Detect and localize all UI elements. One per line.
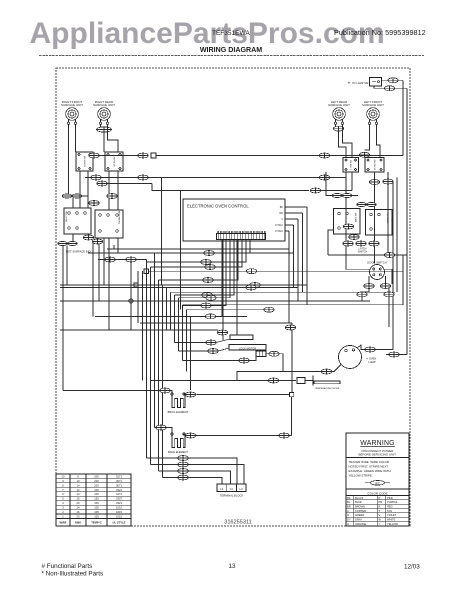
svg-text:O: O: [347, 522, 349, 526]
svg-text:12: 12: [77, 488, 80, 492]
connector: [384, 253, 394, 258]
svg-text:20: 20: [77, 501, 80, 505]
wire: EOC strip drop 5: [175, 240, 235, 295]
wire: mesh h11: [183, 304, 404, 306]
wire: [87, 171, 89, 208]
wire: mesh h13: [95, 315, 247, 317]
svg-text:BAKE SW: BAKE SW: [355, 213, 358, 222]
svg-text:VIOLET: VIOLET: [387, 513, 397, 517]
wire: bundle v11: [182, 305, 184, 361]
svg-text:3071: 3071: [116, 479, 122, 483]
lock switch contacts: [256, 351, 266, 357]
wire: [345, 255, 347, 269]
warning box text: [349, 440, 397, 495]
svg-text:ELECTRONIC OVEN CONTROL: ELECTRONIC OVEN CONTROL: [187, 204, 249, 209]
connector: strip drop 5: [202, 293, 212, 298]
svg-text:14: 14: [77, 483, 80, 487]
svg-text:LAMP: LAMP: [369, 360, 376, 364]
bake element: [168, 433, 188, 454]
wire: right trunk 1: [402, 80, 404, 155]
oven lamp switch: [370, 78, 382, 87]
wire: [99, 155, 138, 157]
svg-text:AWG: AWG: [75, 521, 81, 525]
wire: switch output drop A: [161, 178, 163, 286]
svg-text:105: 105: [94, 510, 99, 514]
wire: cross feed 2: [152, 184, 309, 191]
svg-text:200: 200: [94, 483, 99, 487]
wire: terminal feed 4: [188, 478, 222, 485]
wire: [279, 354, 283, 372]
connector: latch row 2: [356, 241, 366, 246]
connector: strip drop 6: [206, 295, 216, 300]
svg-text:L2: L2: [240, 487, 244, 491]
connector: [369, 180, 379, 185]
wire: bake box left: [328, 230, 334, 234]
wire: lamp bottom lead: [332, 365, 341, 372]
svg-text:G/Y: G/Y: [375, 481, 380, 485]
connector: lamp switch line 2: [384, 86, 394, 91]
oven lamp LP1: [339, 346, 362, 369]
svg-text:SURFACE UNIT: SURFACE UNIT: [61, 103, 83, 107]
connector pair: right front coil: [62, 194, 82, 198]
connector pair: between bake-broil boxes: [357, 202, 377, 206]
lock motor M1: [229, 345, 266, 351]
wire: [101, 177, 138, 179]
connector: [389, 352, 399, 357]
wire: EOC RD drop: [302, 213, 304, 292]
svg-text:3321: 3321: [116, 501, 122, 505]
wire: mesh h1: [107, 248, 289, 250]
wire: [289, 435, 291, 437]
svg-text:105: 105: [94, 514, 99, 518]
wire: thermostat drop 2: [108, 238, 110, 330]
probe plug: [297, 378, 305, 384]
wire: mesh h14: [140, 322, 292, 324]
svg-text:3271: 3271: [116, 474, 122, 478]
wire: terminal feed 1: [188, 458, 237, 484]
connector: below bake box: [349, 235, 359, 240]
wire: EOC BK drop: [306, 207, 308, 305]
wire: left rear coil lead A: [335, 125, 337, 127]
wire: [163, 477, 178, 479]
svg-text:BEFORE SERVICING UNIT.: BEFORE SERVICING UNIT.: [359, 452, 397, 456]
wire: EOC strip drop 4: [159, 240, 239, 280]
svg-text:PR: PR: [379, 500, 383, 504]
connector: [185, 392, 195, 397]
connector: [357, 292, 367, 297]
wire: [291, 323, 293, 325]
connector: [264, 307, 274, 312]
wire: [183, 360, 239, 362]
connector: [365, 347, 375, 352]
connector: [310, 188, 320, 193]
wire: [249, 357, 256, 361]
wire: [361, 297, 363, 301]
wire: lamp switch lower: [374, 86, 384, 88]
svg-text:NOTED FIRST, STRIPE NEXT.: NOTED FIRST, STRIPE NEXT.: [349, 465, 389, 469]
wire: right front coil lead B: [75, 125, 77, 152]
wire: [175, 342, 206, 344]
wire: strip long drop A: [222, 240, 224, 340]
wire: [374, 172, 376, 180]
wire: bundle v7: [166, 288, 168, 331]
wire: door switch feed: [328, 254, 407, 256]
svg-text:BAKE ELEMENT: BAKE ELEMENT: [168, 450, 188, 454]
wire: bundle v2: [146, 260, 148, 459]
connector: [92, 239, 102, 244]
wire: [151, 464, 178, 466]
connector: latch row 1: [343, 241, 353, 246]
svg-text:105: 105: [94, 506, 99, 510]
wire: [117, 238, 119, 253]
wire: thermostat drop 1: [103, 238, 105, 285]
svg-text:10: 10: [62, 474, 65, 478]
wire: [113, 245, 115, 249]
wire: [184, 393, 185, 396]
svg-text:12/03: 12/03: [404, 564, 420, 571]
svg-text:105: 105: [94, 501, 99, 505]
connector: [319, 175, 329, 180]
wire: to right rear switch: [103, 132, 105, 152]
svg-text:GY: GY: [347, 518, 351, 522]
wire: bundle v5: [158, 280, 160, 471]
svg-text:10: 10: [77, 479, 80, 483]
wire: [291, 397, 293, 436]
connector: [156, 425, 166, 430]
wire: strip long drop B: [236, 240, 238, 335]
coil: right rear surface unit: [93, 100, 115, 125]
wire: switch output drop B: [180, 191, 182, 310]
wire: bundle v6: [162, 285, 164, 478]
switch: right front surface switch: [76, 152, 93, 171]
connector: [250, 283, 260, 288]
wire: [288, 249, 290, 323]
wire: EOC strip drop 2: [147, 240, 247, 262]
connector: above thermostat: [89, 201, 99, 206]
wire: mesh h2: [88, 252, 294, 254]
wire: bundle v10: [178, 298, 180, 351]
connector: [279, 433, 289, 438]
wire: [72, 198, 74, 208]
svg-text:Y: Y: [379, 522, 381, 526]
svg-text:TEF351EWA: TEF351EWA: [212, 30, 250, 37]
connector: [105, 257, 115, 262]
wire: [82, 196, 88, 202]
wire: EOC V drop: [297, 219, 299, 301]
wire: bundle v13: [190, 316, 192, 390]
wire: selector drop 1: [92, 242, 94, 317]
wire: probe line: [150, 380, 296, 382]
wire: [159, 470, 178, 472]
svg-text:SWITCH: SWITCH: [358, 250, 368, 253]
wire: [98, 259, 104, 261]
connector: [160, 388, 170, 393]
connector: [97, 181, 107, 186]
svg-text:200: 200: [94, 474, 99, 478]
wire: EOC pin 4: [285, 224, 294, 226]
svg-text:HOT SURFACE IND.: HOT SURFACE IND.: [66, 250, 91, 254]
svg-text:TEMPERATURE PROBE: TEMPERATURE PROBE: [315, 387, 340, 390]
svg-text:20: 20: [77, 514, 80, 518]
svg-text:C: C: [347, 509, 349, 513]
wire: mesh h5 long: [149, 270, 404, 272]
wire: [216, 339, 230, 343]
wire: [385, 276, 387, 284]
svg-text:L1: L1: [220, 487, 224, 491]
wire: door switch left: [346, 268, 370, 270]
svg-text:R: R: [379, 505, 381, 509]
wire: [321, 190, 352, 192]
wire: right trunk 3: [396, 184, 398, 292]
wire: broil return: [196, 394, 289, 396]
svg-text:4471: 4471: [116, 492, 122, 496]
connector: on L1 feed: [319, 153, 329, 158]
svg-text:P: P: [379, 496, 381, 500]
svg-text:TEMP°C: TEMP°C: [91, 521, 102, 525]
wire: EOC strip drop 6: [179, 240, 231, 298]
wire: [396, 178, 398, 184]
oven selector switch: [64, 208, 91, 234]
wire: [351, 172, 353, 191]
oven thermostat switch: [95, 210, 123, 238]
svg-text:1015: 1015: [116, 514, 122, 518]
connector: [285, 325, 295, 330]
wire: right trunk 2 lower: [406, 255, 408, 355]
wire: [108, 171, 110, 210]
svg-text:✳ OVEN: ✳ OVEN: [366, 357, 376, 361]
wire: EOC strip drop 3: [151, 240, 243, 267]
connector: [380, 284, 390, 289]
svg-text:THERMOSTAT: THERMOSTAT: [118, 210, 121, 224]
svg-text:SURFACE UNIT: SURFACE UNIT: [93, 103, 115, 107]
connector: above thermostat B: [107, 194, 117, 199]
wire: [196, 435, 279, 437]
svg-text:BK: BK: [280, 206, 284, 209]
color code table: [346, 496, 409, 527]
svg-text:EXAMPLE: GREEN WIRE WITH: EXAMPLE: GREEN WIRE WITH: [349, 469, 391, 473]
wire: mesh h8: [171, 291, 396, 293]
wire: to door switch: [374, 184, 376, 263]
wire: switch to selector: [79, 171, 81, 208]
svg-text:Publication No: 5995399812: Publication No: 5995399812: [334, 28, 426, 37]
connector: [239, 358, 249, 363]
svg-text:BROWN: BROWN: [355, 505, 365, 509]
connector: lamp switch line 1: [388, 78, 398, 83]
svg-text:BROIL SW: BROIL SW: [388, 213, 390, 223]
wire: [237, 372, 321, 381]
svg-text:DOOR SWITCH: DOOR SWITCH: [367, 261, 386, 265]
tracer wire example symbol: [365, 481, 390, 486]
wire: right rear coil lead A: [100, 125, 102, 128]
connector: [383, 179, 393, 184]
connector: [246, 269, 256, 274]
wire: right front coil lead A: [68, 125, 70, 194]
svg-text:3071: 3071: [116, 483, 122, 487]
wire: left front coil lead A: [365, 125, 370, 150]
header rule: [39, 55, 424, 57]
wire: bundle v8: [170, 292, 172, 330]
svg-text:105: 105: [94, 492, 99, 496]
connector: strip drop 1: [204, 251, 214, 256]
connector: strip drop 2: [201, 260, 211, 265]
wire: to node: [291, 330, 293, 393]
svg-text:WARNING: WARNING: [360, 440, 394, 447]
wire: EOC pin 5: [285, 230, 289, 232]
svg-text:RED: RED: [387, 505, 393, 509]
svg-text:BLACK: BLACK: [355, 496, 364, 500]
wire: lamp top lead: [357, 345, 365, 350]
wire: lamp switch to connector: [382, 79, 389, 81]
junction node: [151, 153, 156, 158]
connector pair: below left rear switch: [332, 193, 352, 197]
wire: mesh h15: [60, 329, 218, 331]
wire: mesh h7: [60, 284, 307, 286]
coil: right front surface unit: [61, 100, 83, 125]
wire: EOC strip drop 8: [191, 240, 223, 316]
wire: [326, 172, 332, 196]
connector: [217, 330, 227, 335]
wire: mesh h12: [187, 309, 273, 311]
svg-text:13: 13: [228, 563, 236, 570]
wire: [368, 276, 370, 284]
svg-text:LOCK MOTOR: LOCK MOTOR: [239, 346, 257, 350]
wire: to door switch feed: [387, 184, 389, 255]
warning box: [346, 433, 409, 526]
svg-text:316255311: 316255311: [224, 520, 252, 526]
broil element: [168, 393, 189, 414]
wire: lamp right: [386, 354, 407, 356]
bake switch box: [334, 209, 361, 235]
svg-text:YELLOW STRIPE.: YELLOW STRIPE.: [349, 474, 373, 478]
wire: [117, 171, 119, 210]
connector: [269, 351, 279, 356]
svg-text:# Functional Parts: # Functional Parts: [42, 563, 93, 570]
svg-text:BL: BL: [347, 500, 351, 504]
svg-text:✳: ✳: [348, 81, 351, 85]
svg-text:GREEN: GREEN: [355, 513, 364, 517]
wire: bundle v0b: [137, 271, 139, 323]
broil switch box: [366, 210, 393, 236]
svg-text:TERMINAL BLOCK: TERMINAL BLOCK: [220, 494, 244, 498]
svg-text:LT BLU: LT BLU: [275, 224, 283, 227]
svg-text:SURFACE UNIT: SURFACE UNIT: [328, 103, 350, 107]
wire: [166, 428, 172, 434]
wire: EOC strip drop 7: [183, 240, 227, 306]
connector: [268, 378, 278, 383]
junction node: [134, 283, 138, 287]
svg-text:14: 14: [77, 492, 80, 496]
wire: bundle v9: [174, 295, 176, 343]
door latch bar: [230, 335, 253, 340]
wire: EOC strip drop 1: [155, 240, 251, 253]
wire: [402, 271, 404, 305]
wire: bundle v1: [142, 271, 144, 380]
svg-text:SELECTOR: SELECTOR: [66, 211, 68, 222]
connector: strip drop 4: [203, 278, 213, 283]
wire: bundle v4: [154, 253, 156, 428]
connector: left front coil: [359, 152, 369, 157]
wire: bundle v12: [186, 310, 188, 372]
wire: EOC LT BLU drop: [293, 225, 295, 288]
wire: to left rear switch: [339, 131, 347, 158]
svg-text:WIRE: WIRE: [59, 521, 66, 525]
coil: left rear surface unit: [328, 100, 350, 125]
wire: terminal feed 3: [188, 471, 230, 484]
wire gauge table text: [59, 474, 125, 524]
wire: broil feed: [63, 390, 160, 392]
connector: strip drop 8: [205, 314, 215, 319]
svg-text:* Non-Illustrated Parts: * Non-Illustrated Parts: [42, 571, 104, 578]
wire: bake feed: [155, 427, 156, 429]
wire: [388, 288, 390, 292]
svg-text:3321: 3321: [116, 488, 122, 492]
wire: [388, 297, 390, 327]
switch: left rear surface switch: [343, 158, 359, 173]
EOC pin labels: [275, 206, 283, 233]
wire: [170, 391, 172, 394]
svg-text:LT RR SW: LT RR SW: [351, 160, 353, 169]
connector: terminal feed 4: [178, 475, 188, 480]
wire: left long drop: [62, 246, 64, 391]
connector: [206, 340, 216, 345]
wire: mesh h3: [136, 259, 147, 261]
temperature probe sensor: [313, 376, 340, 391]
connector: switch feed B: [138, 153, 148, 158]
connector: right rear coil: [97, 127, 112, 132]
svg-text:1015: 1015: [116, 506, 122, 510]
connector: latch row 3: [369, 241, 379, 246]
wire: EOC pin 2: [285, 212, 303, 214]
wire: EOC pin 3: [285, 218, 298, 220]
wire: [352, 195, 358, 197]
wire: right trunk 4: [392, 184, 394, 350]
wire: [218, 348, 229, 351]
svg-text:BROIL ELEMENT: BROIL ELEMENT: [168, 410, 189, 414]
connector: [126, 257, 136, 262]
svg-text:TAN: TAN: [387, 509, 392, 513]
svg-text:ORANGE: ORANGE: [355, 522, 367, 526]
wire: [365, 156, 369, 159]
wire: mesh h6: [60, 287, 298, 289]
wire: mesh h10: [60, 300, 370, 302]
wire gauge table: [56, 474, 131, 526]
svg-text:14: 14: [77, 506, 80, 510]
svg-text:16: 16: [77, 497, 80, 501]
wire: [66, 246, 68, 285]
wire: cross feed 1: [148, 177, 319, 179]
svg-text:BR: BR: [347, 505, 351, 509]
EOC connector strip: [217, 231, 266, 239]
svg-text:BLUE: BLUE: [355, 500, 362, 504]
wire: EOC LT BLU 2 drop: [288, 231, 290, 249]
wire: bundle v0a: [130, 260, 132, 331]
svg-text:16: 16: [77, 510, 80, 514]
wire: [305, 380, 313, 382]
wire: [398, 79, 403, 81]
color code table text: [347, 496, 398, 526]
switch: right rear surface switch: [105, 152, 123, 171]
svg-text:3307: 3307: [116, 497, 122, 501]
junction node: [290, 393, 294, 397]
wire: EOC pin 1: [285, 206, 307, 208]
connector: [364, 284, 374, 289]
svg-text:150: 150: [94, 497, 99, 501]
wire: [330, 177, 346, 179]
connector: [384, 292, 394, 297]
door switch S1: [370, 265, 385, 280]
wire: [392, 182, 394, 184]
connector: left rear coil: [333, 126, 343, 131]
